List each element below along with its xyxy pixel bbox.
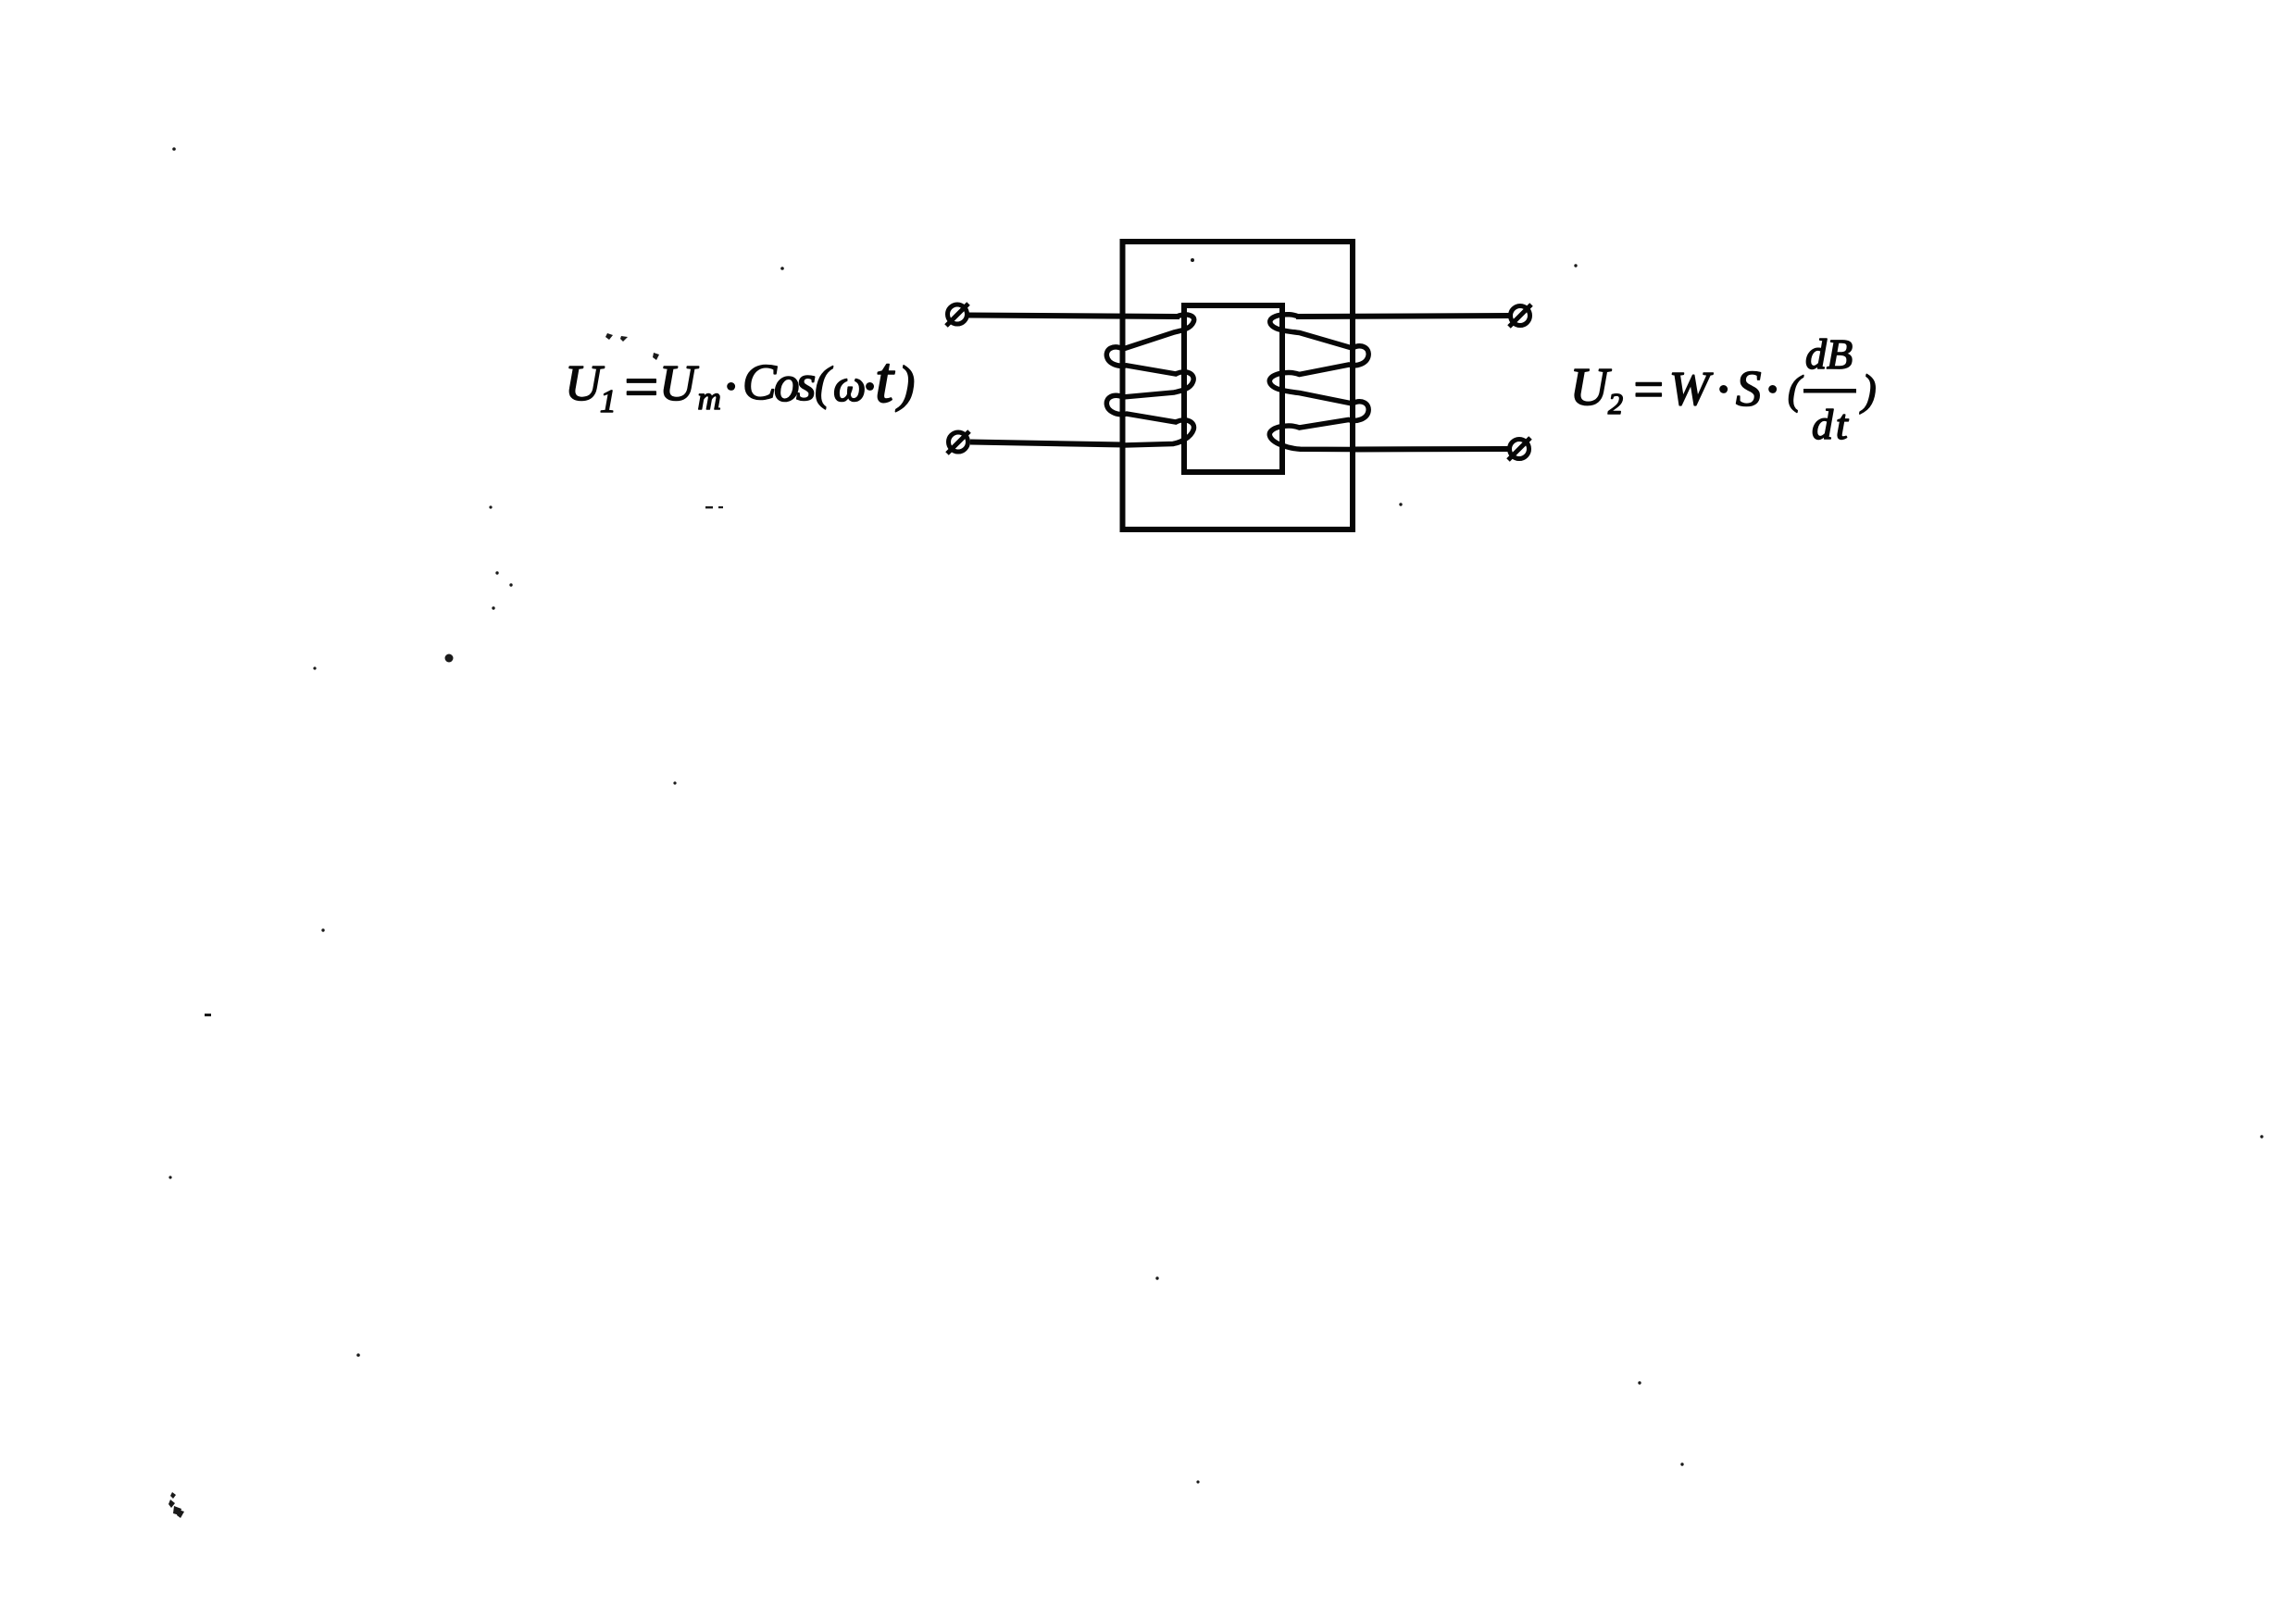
terminal bottom-left [947, 431, 969, 454]
wire secondary bottom [1352, 446, 1508, 453]
wire primary top [968, 316, 1179, 317]
secondary winding W2 [1269, 315, 1368, 450]
primary winding W1 [1106, 315, 1193, 445]
terminal top-left [946, 304, 968, 326]
terminal bottom-right [1508, 438, 1530, 460]
wire secondary top [1296, 316, 1509, 317]
wire primary bottom [970, 442, 1124, 445]
transformer core inner rectangle (window) [1184, 305, 1282, 472]
terminal top-right [1509, 305, 1531, 327]
equation U2 = W * S * (dB/dt) [1575, 339, 1875, 439]
transformer core outer rectangle [1123, 242, 1354, 529]
equation U1 = Um * Cos(w*t) [569, 365, 914, 413]
